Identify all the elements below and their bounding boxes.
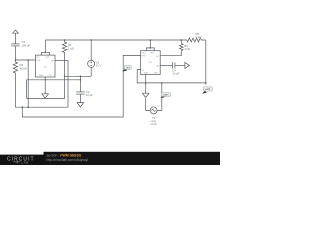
svg-text:555: 555 — [149, 62, 152, 64]
wire — [67, 61, 69, 108]
watermark CircuitLab logo block — [0, 155, 44, 165]
svg-text:out2: out2 — [205, 88, 210, 91]
resistor R1 value label — [68, 43, 74, 50]
node junction — [15, 59, 17, 61]
node junction — [150, 39, 152, 41]
ground — [77, 103, 84, 107]
node junction — [44, 79, 46, 81]
svg-text:10 µF: 10 µF — [172, 71, 179, 75]
svg-text:THR: THR — [36, 60, 41, 62]
svg-text:68 kΩ: 68 kΩ — [20, 66, 27, 70]
wire feedback loop — [27, 76, 65, 98]
V2 value label — [150, 116, 157, 126]
wire — [205, 40, 207, 85]
svg-text:out: out — [126, 66, 130, 69]
node junction — [80, 79, 82, 81]
svg-text:OUT: OUT — [155, 56, 160, 58]
caption bar — [44, 152, 221, 165]
wire — [44, 40, 46, 52]
svg-text:http://circuitlab.com/c/6dywq2: http://circuitlab.com/c/6dywq2 — [47, 158, 89, 162]
ground — [142, 93, 149, 97]
U2 top pins bridge — [146, 48, 154, 51]
wire V2 left — [146, 99, 151, 111]
svg-text:auction : PWM GEESS: auction : PWM GEESS — [47, 153, 82, 157]
resistor R5 — [187, 38, 206, 42]
resistor R1 — [62, 40, 66, 54]
node junction — [161, 82, 163, 84]
U1 pin labels — [36, 57, 55, 77]
svg-text:RST: RST — [46, 57, 51, 59]
node junction — [45, 52, 47, 54]
svg-text:CV: CV — [141, 70, 144, 72]
wire U2 gnd/ctl bottom bus — [137, 70, 206, 83]
op box2 555 timer U2 — [141, 51, 161, 75]
svg-text:LAB: LAB — [22, 160, 29, 164]
wire — [22, 55, 140, 117]
node junction — [80, 76, 82, 78]
wire — [79, 94, 81, 102]
svg-text:1 kΩ: 1 kΩ — [68, 46, 74, 50]
wire TRIG — [15, 59, 35, 61]
wire U2 to R4 — [160, 51, 181, 56]
wire — [65, 75, 92, 77]
node junction — [64, 39, 66, 41]
wire — [27, 60, 29, 107]
U2 pin labels — [141, 53, 160, 75]
wire — [14, 33, 16, 43]
wire — [90, 40, 92, 60]
svg-text:pwm: pwm — [163, 94, 168, 97]
wire — [15, 106, 68, 108]
svg-text:10 µF: 10 µF — [86, 93, 93, 97]
resistor R4 value label — [184, 44, 190, 51]
capacitor C3 — [11, 44, 19, 46]
voltage source V1 — [88, 60, 95, 67]
svg-text:CTL: CTL — [48, 75, 52, 77]
node flag VCC arrow — [13, 30, 19, 33]
node junction — [145, 82, 147, 84]
capacitor C3 value label — [21, 40, 30, 47]
node junction — [150, 47, 152, 49]
resistor R5 value label — [196, 32, 202, 39]
svg-text:THR: THR — [153, 73, 158, 75]
node junction — [205, 82, 207, 84]
wire — [14, 75, 16, 108]
svg-text:555: 555 — [44, 67, 47, 69]
svg-text:DIS: DIS — [156, 65, 160, 67]
node name tag pwm right — [203, 87, 213, 94]
wire U1 out — [55, 60, 68, 62]
node junction — [90, 39, 92, 41]
ground — [42, 94, 49, 98]
capacitor C2 value label — [86, 90, 93, 97]
svg-text:1 kHz: 1 kHz — [150, 122, 157, 126]
capacitor C4 — [173, 62, 175, 68]
wire U2 out to C4 — [160, 64, 172, 66]
output marker triangle — [185, 62, 190, 68]
node junction — [64, 76, 66, 78]
node junction — [27, 106, 29, 108]
svg-text:1 kΩ: 1 kΩ — [184, 47, 190, 51]
node junction — [181, 39, 183, 41]
V1 value label — [96, 60, 102, 67]
svg-text:12 V: 12 V — [96, 64, 102, 68]
wire — [79, 76, 81, 92]
capacitor C2 — [76, 92, 84, 94]
wire — [64, 54, 66, 77]
svg-text:GND: GND — [39, 75, 44, 77]
capacitor C4 value label — [172, 68, 179, 75]
voltage source V2 — [150, 107, 157, 114]
resistor R2 — [13, 62, 17, 75]
wire V2 right — [157, 83, 162, 111]
svg-text:100 pF: 100 pF — [21, 43, 30, 47]
op box1 555 timer U1 — [36, 55, 56, 77]
node name tag out1 — [123, 65, 131, 71]
wire — [90, 67, 92, 76]
svg-text:GND: GND — [144, 73, 149, 75]
resistor R2 value label — [20, 63, 27, 70]
node junction — [27, 59, 29, 61]
wire ground bus — [27, 79, 81, 81]
node junction — [22, 106, 24, 108]
wire U2 gnd stub — [145, 75, 147, 94]
wire — [149, 40, 151, 48]
svg-text:1 kΩ: 1 kΩ — [196, 35, 202, 39]
svg-text:DIS: DIS — [51, 61, 55, 63]
wire — [175, 64, 185, 66]
wire VCC rail — [45, 39, 186, 41]
node name tag pwm mid — [161, 93, 171, 98]
svg-text:RST: RST — [151, 53, 156, 55]
U1 top pins bridge — [41, 52, 49, 55]
wire U1 gnd stub — [44, 77, 46, 94]
svg-text:VS+: VS+ — [36, 57, 41, 59]
wire — [14, 46, 16, 62]
svg-text:VS+: VS+ — [141, 53, 146, 55]
svg-text:TRG: TRG — [141, 56, 146, 58]
resistor R4 — [180, 40, 184, 51]
